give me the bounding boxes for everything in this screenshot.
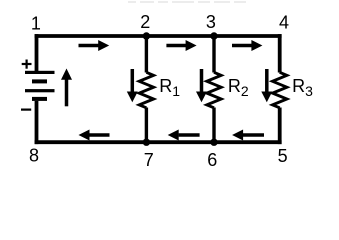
current arrow: top wire segment 3-4, pointing right xyxy=(232,40,262,51)
wire: left vertical upper (node 1 to battery +) xyxy=(35,34,39,71)
svg-text:6: 6 xyxy=(207,150,217,170)
svg-text:1: 1 xyxy=(31,14,41,34)
battery V1 xyxy=(25,71,55,101)
wire: node 2 to R1 xyxy=(145,36,148,73)
wire: R2 to node 6 xyxy=(212,108,215,143)
svg-text:7: 7 xyxy=(144,150,154,170)
current arrow: R1 branch, pointing down xyxy=(127,69,138,102)
svg-text:8: 8 xyxy=(29,146,39,166)
svg-text:5: 5 xyxy=(278,146,288,166)
wire: R1 to node 7 xyxy=(145,108,148,143)
resistor R2 xyxy=(207,72,221,108)
wire: top horizontal (node 1-2-3-4) xyxy=(35,34,282,38)
current arrow: bottom wire segment 7-8, pointing left xyxy=(79,130,110,141)
svg-text:4: 4 xyxy=(279,13,289,33)
junction node 2 dot xyxy=(143,32,150,39)
wire: bottom horizontal (node 8-7-6-5) xyxy=(35,140,282,144)
current arrow: R2 branch, pointing down xyxy=(196,69,207,102)
current arrow: bottom wire segment 5-6, pointing left xyxy=(232,130,264,141)
svg-text:2: 2 xyxy=(140,12,150,32)
junction node 3 dot xyxy=(210,32,217,39)
cropped text remnant at top edge xyxy=(128,1,246,3)
wire: left vertical lower (battery - to node 8) xyxy=(35,101,39,144)
junction node 7 dot xyxy=(143,139,150,146)
wire: node 4 to R3 (right vertical upper) xyxy=(278,34,282,72)
wire: node 3 to R2 xyxy=(212,36,215,73)
current arrow: top wire segment 2-3, pointing right xyxy=(166,40,196,51)
current arrow: bottom wire segment 6-7, pointing left xyxy=(168,130,200,141)
svg-text:3: 3 xyxy=(206,12,216,32)
resistor R1 xyxy=(139,72,153,108)
current arrow: top wire segment 1-2, pointing right xyxy=(79,40,110,51)
resistor R3 xyxy=(273,72,287,108)
current arrow: battery branch, pointing up xyxy=(61,69,72,107)
junction node 6 dot xyxy=(210,139,217,146)
battery positive terminal label + xyxy=(22,60,32,69)
wire: R3 to node 5 (right vertical lower) xyxy=(278,108,282,145)
battery negative terminal label - xyxy=(21,109,31,111)
current arrow: R3 branch, pointing down xyxy=(261,69,272,102)
